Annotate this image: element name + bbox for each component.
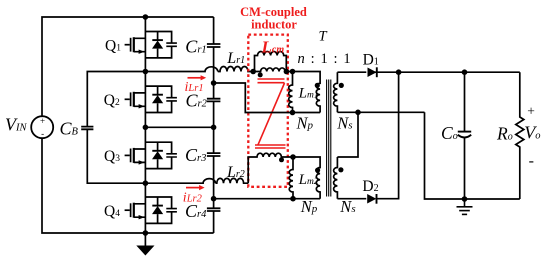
ground (output, earth symbol) [457, 199, 473, 214]
capacitor Cr3 [213, 156, 215, 208]
wire phase-2 return (Cr3/Cr4 node to primary-2 bottom) [214, 198, 321, 200]
wire left rail bottom and bottom rail [42, 138, 214, 233]
node Lm2 top [290, 154, 296, 160]
transformer primary winding Np (lower) [293, 157, 320, 199]
node Cr2/Cr3 junction [211, 125, 217, 131]
CM winding 2 on phase-2 wire [248, 153, 293, 183]
capacitor Cr2 [213, 101, 215, 153]
inductor Lcm (top loop winding) [255, 52, 287, 72]
CM winding 1 on phase-1 wire [253, 68, 292, 72]
diode D2 [367, 194, 376, 204]
node Q4 source / bottom rail [143, 230, 149, 236]
transistor Q3 (MOSFET with body diode and parallel capacitor) [125, 142, 177, 168]
polarity dot secondary 1 [339, 83, 344, 88]
polarity dot primary 2 [315, 168, 320, 173]
polarity dot CM winding 2 [279, 157, 284, 162]
wire phase-1 with hop over Cr chain [145, 67, 217, 72]
wire left rail and top rail [42, 17, 214, 116]
node Q2/Q3 midpoint [143, 125, 149, 131]
wire CB branch [87, 72, 145, 184]
node Co bottom / ground [462, 196, 468, 202]
node Lcm left junction [250, 69, 256, 75]
wire secondary 1 top to D1 [337, 71, 366, 73]
svg-text:inductor: inductor [251, 18, 297, 32]
wire D2 branch vertical [376, 72, 399, 199]
svg-text:+: + [40, 116, 45, 126]
CM-coupled inductor dashed red box [248, 35, 287, 187]
node Cr3/Cr4 junction [211, 196, 217, 202]
core symbol (red) of CM inductor [255, 79, 286, 148]
transistor Q2 (MOSFET with body diode and parallel capacitor) [125, 86, 177, 112]
node Co top [462, 69, 468, 75]
voltage source VIN [31, 116, 53, 138]
transformer secondary winding Ns (lower) [334, 157, 338, 199]
inductor Lm1 (magnetizing, phase 1) [289, 72, 293, 113]
wire secondary center tap [337, 112, 424, 157]
node D1/D2 junction [396, 69, 402, 75]
polarity dot CM winding 1 [258, 72, 263, 77]
resistor Ro [516, 72, 524, 199]
wire phase-2 with hop over Cr chain [145, 179, 215, 184]
svg-text:T: T [319, 28, 328, 44]
capacitor Co [464, 72, 466, 199]
capacitor CB [81, 127, 93, 130]
svg-text:-: - [529, 153, 534, 170]
node Lm1 top [290, 69, 296, 75]
transformer core [327, 80, 331, 197]
capacitor Cr4 [213, 211, 215, 233]
node Cr1/Cr2 junction [211, 80, 217, 86]
ground (input, filled triangle) [144, 233, 146, 246]
wire switch stack vertical [144, 17, 146, 233]
node center tap [355, 110, 361, 116]
current arrow iLr2 [186, 187, 200, 189]
polarity dot primary 1 [315, 83, 320, 88]
inductor Lm2 (magnetizing, phase 2) [289, 157, 293, 199]
transformer secondary winding Ns (upper) [334, 72, 338, 112]
wire phase-1 return (Cr1/Cr2 node to primary-1 bottom) [214, 83, 321, 113]
capacitor Cr1 [213, 17, 215, 99]
wire secondary 2 bottom to D2 [337, 198, 366, 200]
polarity dot secondary 2 [338, 167, 343, 172]
svg-text:iLr2: iLr2 [183, 191, 203, 206]
transformer primary winding Np (upper) [293, 72, 321, 113]
node Q3/Q4 midpoint [143, 180, 149, 186]
node Q1/Q2 midpoint [143, 69, 149, 75]
VIN polarity marks [40, 116, 45, 139]
current arrow iLr1 [188, 77, 202, 79]
inductor Lr1 [218, 67, 253, 72]
node top rail / Q1 drain [143, 14, 149, 20]
svg-text:-: - [41, 129, 44, 139]
svg-text:n : 1 : 1: n : 1 : 1 [298, 51, 352, 67]
node Lm2 bottom [290, 196, 296, 202]
svg-text:+: + [527, 103, 535, 118]
inductor Lr2 [216, 178, 249, 183]
svg-text:iLr1: iLr1 [185, 80, 204, 95]
transistor Q4 (MOSFET with body diode and parallel capacitor) [125, 197, 177, 223]
wire output positive rail [375, 71, 520, 73]
node Lm1 bottom [290, 110, 296, 116]
wire output return rail [425, 112, 520, 199]
diode D1 [368, 68, 377, 78]
node Lcm right junction [284, 69, 290, 75]
wire Q2/Q3 midpoint to Cr2/Cr3 node [145, 126, 213, 128]
transistor Q1 (MOSFET with body diode and parallel capacitor) [125, 32, 177, 58]
